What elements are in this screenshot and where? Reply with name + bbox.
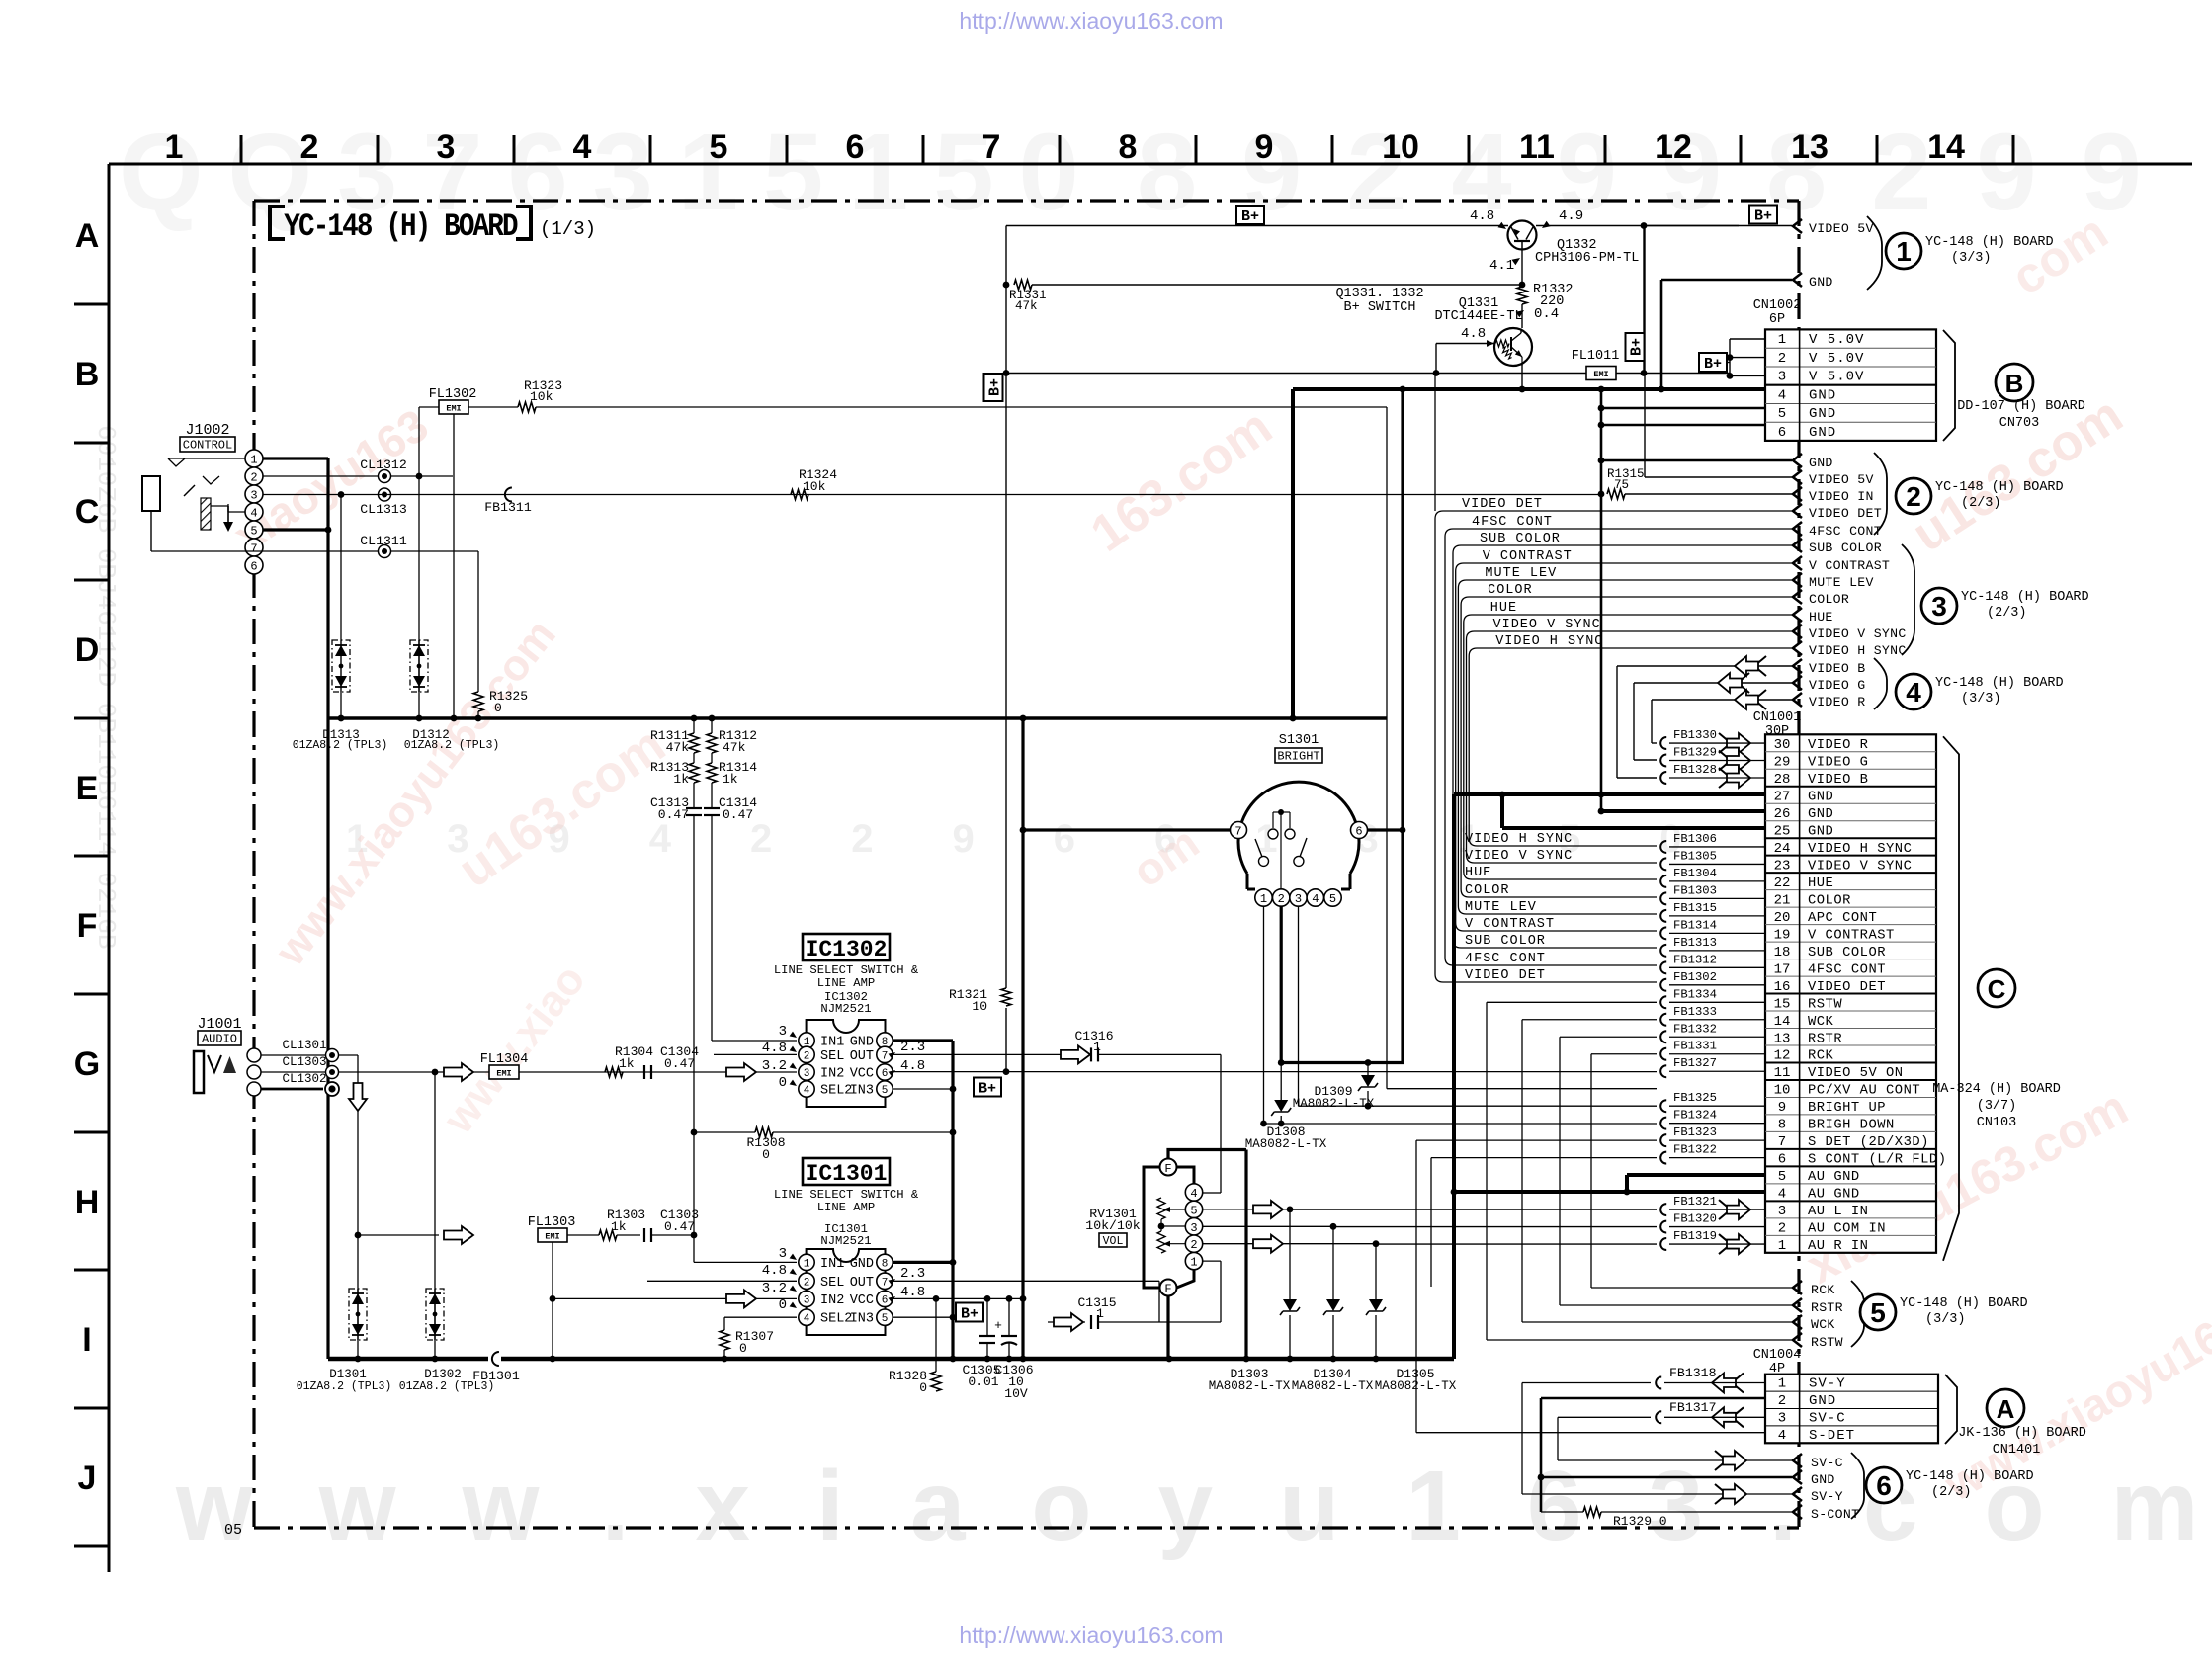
svg-text:FB1303: FB1303 (1673, 883, 1717, 897)
bracket CN1001 (1943, 736, 1959, 1261)
arrow FL1304 (444, 1063, 473, 1081)
svg-text:(2/3): (2/3) (1931, 1485, 1972, 1500)
svg-text:SUB COLOR: SUB COLOR (1808, 946, 1886, 960)
svg-text:MUTE LEV: MUTE LEV (1809, 575, 1874, 590)
svg-text:FB1324: FB1324 (1673, 1109, 1717, 1123)
svg-text:2: 2 (1278, 892, 1285, 906)
ferrite bead FB1330 (1660, 737, 1666, 749)
svg-text:FL1303: FL1303 (528, 1215, 576, 1230)
wires pins 7,6 (1416, 1139, 1657, 1141)
svg-text:www.xiaoyu163.com: www.xiaoyu163.com (175, 1451, 2212, 1561)
svg-text:DTC144EE-TL: DTC144EE-TL (1434, 309, 1522, 324)
ferrite bead FB1320 (1660, 1221, 1666, 1233)
svg-text:J: J (78, 1459, 97, 1497)
RV pin4 wire from C1316 (1203, 1192, 1212, 1194)
svg-text:I: I (82, 1321, 91, 1359)
svg-text:MA8082-L-TX: MA8082-L-TX (1375, 1379, 1457, 1393)
svg-text:DD-107 (H) BOARD: DD-107 (H) BOARD (1957, 399, 2085, 414)
wire MUTE LEV (1458, 580, 1792, 914)
svg-text:1k: 1k (673, 772, 689, 787)
svg-text:CN1004: CN1004 (1753, 1348, 1802, 1363)
resistor R1314 1k (711, 753, 713, 763)
svg-text:YC-148 (H) BOARD: YC-148 (H) BOARD (1900, 1296, 2028, 1311)
svg-text:5: 5 (882, 1085, 889, 1097)
svg-text:AU R IN: AU R IN (1808, 1239, 1868, 1254)
arrow into IN2 (726, 1063, 756, 1081)
svg-text:FL1302: FL1302 (429, 387, 477, 402)
svg-text:4: 4 (1778, 1187, 1786, 1203)
svg-text:VIDEO B: VIDEO B (1809, 661, 1866, 676)
svg-text:FB1321: FB1321 (1673, 1195, 1717, 1209)
svg-text:1k: 1k (619, 1056, 635, 1071)
svg-text:SUB COLOR: SUB COLOR (1809, 541, 1882, 555)
svg-text:GND: GND (850, 1036, 874, 1050)
svg-text:FB1311: FB1311 (484, 500, 532, 515)
wire pin 10 (1387, 1088, 1657, 1090)
board outline dash-dot border YC-148 (254, 199, 1799, 202)
wires AU pins 3,2,1 (1290, 1209, 1657, 1210)
resistor R1304 1k (605, 1067, 623, 1077)
svg-text:4: 4 (804, 1313, 810, 1325)
svg-text:FB1314: FB1314 (1673, 918, 1717, 932)
diode D1312 (410, 640, 428, 692)
outputs group 6 (1793, 1454, 1802, 1467)
svg-text:1: 1 (1778, 1376, 1786, 1392)
svg-text:CN103: CN103 (1977, 1116, 2017, 1130)
wire VIDEO 5V from B+ (1645, 225, 1792, 227)
svg-text:MUTE LEV: MUTE LEV (1485, 566, 1557, 581)
svg-text:VIDEO DET: VIDEO DET (1465, 968, 1546, 983)
svg-text:MA8082-L-TX: MA8082-L-TX (1245, 1137, 1327, 1151)
board ref circled A (1987, 1389, 2024, 1427)
svg-text:10k/10k: 10k/10k (1085, 1218, 1140, 1233)
svg-text:GND: GND (1808, 824, 1833, 839)
svg-text:5: 5 (1870, 1297, 1886, 1328)
svg-text:+: + (994, 1318, 1002, 1333)
svg-text:V 5.0V: V 5.0V (1809, 351, 1864, 367)
svg-text:OUT: OUT (850, 1049, 874, 1064)
GND vertical to chevron (1660, 280, 1663, 389)
svg-text:4.1: 4.1 (1489, 258, 1514, 274)
svg-text:7: 7 (250, 542, 257, 556)
svg-text:VIDEO H SYNC: VIDEO H SYNC (1808, 842, 1912, 857)
svg-text:OUT: OUT (850, 1276, 874, 1291)
svg-text:4.8: 4.8 (900, 1285, 925, 1300)
svg-text:IN1: IN1 (820, 1257, 844, 1272)
svg-text:A: A (1997, 1394, 2015, 1424)
svg-text:01ZA8.2 (TPL3): 01ZA8.2 (TPL3) (293, 739, 388, 752)
svg-text:GND: GND (1809, 1393, 1836, 1409)
svg-text:9: 9 (1255, 128, 1274, 166)
wire pin7 (151, 550, 478, 552)
capacitor C1305 0.01 (986, 1298, 988, 1336)
resistor R1328 0 (935, 1298, 937, 1372)
svg-text:4.8: 4.8 (762, 1041, 787, 1056)
diode D1301 (349, 1289, 367, 1340)
svg-text:7: 7 (882, 1050, 889, 1062)
svg-text:05: 05 (224, 1522, 242, 1539)
IC1301 VCC wire (893, 1297, 1023, 1299)
ferrite bead FB1313 (1660, 945, 1666, 957)
svg-text:2: 2 (300, 128, 319, 166)
board ref circled C (1978, 969, 2015, 1007)
svg-text:4FSC CONT: 4FSC CONT (1808, 962, 1886, 977)
svg-text:GND: GND (1809, 425, 1836, 441)
wires RCK RSTR WCK RSTW crossover (1487, 1001, 1657, 1003)
svg-text:47k: 47k (1015, 299, 1038, 313)
wire S1301 pin6 thick (1368, 828, 1403, 831)
svg-text:MUTE LEV: MUTE LEV (1465, 900, 1537, 915)
svg-text:25: 25 (1774, 823, 1791, 839)
pin 1 J1002 (245, 450, 263, 467)
svg-text:V 5.0V: V 5.0V (1809, 370, 1864, 385)
svg-text:8: 8 (882, 1258, 889, 1270)
svg-text:(3/7): (3/7) (1977, 1099, 2017, 1114)
wire 4FSC CONT (1445, 529, 1792, 965)
pin 5 J1002 (245, 521, 263, 539)
svg-text:GND: GND (1808, 790, 1833, 804)
wire CL1301 to D1301 (357, 1055, 359, 1359)
ferrite bead FB1323 (1660, 1134, 1666, 1146)
svg-text:S1301: S1301 (1279, 733, 1319, 748)
svg-text:SV-Y: SV-Y (1811, 1489, 1843, 1504)
svg-text:VIDEO 5V: VIDEO 5V (1809, 472, 1874, 487)
svg-text:FB1323: FB1323 (1673, 1125, 1717, 1139)
diode D1305 (1375, 1244, 1377, 1299)
svg-text:2: 2 (250, 471, 257, 485)
svg-text:MA8082-L-TX: MA8082-L-TX (1293, 1097, 1375, 1111)
svg-text:FB1315: FB1315 (1673, 901, 1717, 915)
diode D1303 (1289, 1209, 1291, 1299)
svg-text:10k: 10k (530, 389, 553, 404)
wire pin5 thick (263, 528, 328, 531)
svg-text:3: 3 (1778, 1411, 1786, 1427)
capacitor C1313 0.47 (693, 783, 695, 808)
svg-text:SEL: SEL (820, 1276, 844, 1291)
svg-text:0: 0 (494, 701, 502, 715)
ferrite bead FB1322 (1660, 1152, 1666, 1164)
svg-text:3: 3 (779, 1246, 787, 1262)
svg-text:VIDEO DET: VIDEO DET (1462, 497, 1543, 512)
resistor R1313 1k (693, 753, 695, 763)
svg-text:FB1330: FB1330 (1673, 728, 1717, 742)
ferrite bead FB1315 (1660, 910, 1666, 922)
svg-text:16: 16 (1774, 979, 1791, 995)
svg-text:0: 0 (919, 1380, 927, 1395)
RV pin1 wire from C1315 (1203, 1260, 1221, 1262)
svg-text:FB1318: FB1318 (1669, 1366, 1717, 1380)
svg-text:EMI: EMI (446, 404, 461, 414)
IC1302 GND wire thick (893, 1039, 953, 1042)
GND rail top (1293, 387, 1765, 391)
wire VIDEO B (1617, 665, 1792, 667)
IC1301 IN3 wire (893, 1316, 953, 1318)
svg-text:WCK: WCK (1811, 1317, 1835, 1332)
wire HUE (1464, 615, 1792, 879)
svg-text:FB1328: FB1328 (1673, 763, 1717, 777)
pin 2 J1002 (245, 467, 263, 485)
svg-text:LINE SELECT SWITCH &: LINE SELECT SWITCH & (774, 1188, 919, 1202)
svg-text:5: 5 (882, 1313, 889, 1325)
svg-text:IC1301: IC1301 (806, 1161, 888, 1187)
svg-text:A: A (75, 217, 100, 255)
svg-text:2: 2 (804, 1050, 810, 1062)
svg-text:YC-148 (H) BOARD: YC-148 (H) BOARD (1935, 480, 2064, 495)
svg-text:F: F (77, 907, 98, 945)
svg-text:1: 1 (1778, 1238, 1786, 1254)
svg-text:28: 28 (1774, 772, 1791, 788)
svg-text:(2/3): (2/3) (1961, 496, 2001, 511)
wire B+ top rail (1006, 225, 1508, 227)
wire VIDEO G (1634, 682, 1792, 684)
RV pin2 wire AU R (1203, 1243, 1376, 1245)
ferrite bead FB1319 (1660, 1238, 1666, 1250)
svg-text:AUDIO: AUDIO (202, 1033, 237, 1046)
svg-text:VIDEO 5V ON: VIDEO 5V ON (1808, 1066, 1904, 1081)
svg-text:FB1332: FB1332 (1673, 1022, 1717, 1036)
diode D1302 (426, 1289, 444, 1340)
svg-text:4FSC CONT: 4FSC CONT (1472, 515, 1553, 530)
svg-text:(3/3): (3/3) (1961, 692, 2001, 707)
capacitor C1304 0.47 (643, 1065, 645, 1079)
svg-text:VIDEO V SYNC: VIDEO V SYNC (1493, 618, 1601, 632)
svg-text:B: B (75, 356, 100, 393)
svg-text:HUE: HUE (1490, 601, 1517, 616)
ferrite bead FB1329 (1660, 755, 1666, 767)
svg-text:VIDEO V SYNC: VIDEO V SYNC (1465, 849, 1573, 864)
svg-text:4: 4 (804, 1085, 810, 1097)
svg-text:7: 7 (882, 1277, 889, 1289)
svg-text:7: 7 (982, 128, 1001, 166)
ferrite bead FB1302 (1660, 979, 1666, 991)
ferrite bead FB1332 (1660, 1031, 1666, 1042)
wire into IC1301 pin3 (553, 1297, 797, 1299)
svg-text:6: 6 (846, 128, 865, 166)
vertical FL1302 left (418, 407, 420, 718)
ferrite bead FB1314 (1660, 927, 1666, 939)
wire S-DET pin4 (1416, 1432, 1765, 1434)
ferrite bead FB1303 (1660, 892, 1666, 904)
wire SUB COLOR (1453, 545, 1792, 948)
svg-text:7: 7 (1778, 1134, 1786, 1150)
svg-text:http://www.xiaoyu163.com: http://www.xiaoyu163.com (959, 1623, 1223, 1648)
resistor R1308 0 (694, 1131, 755, 1133)
svg-text:8: 8 (1778, 1118, 1786, 1133)
svg-text:VOL: VOL (1103, 1235, 1124, 1248)
board ref circled B (1996, 364, 2033, 401)
svg-text:0.47: 0.47 (664, 1056, 695, 1071)
svg-text:0.4: 0.4 (1534, 306, 1559, 322)
bracket group 3 (1902, 544, 1914, 655)
svg-text:HUE: HUE (1465, 866, 1491, 880)
svg-text:SUB COLOR: SUB COLOR (1465, 934, 1546, 949)
svg-text:YC-148 (H) BOARD: YC-148 (H) BOARD (1906, 1469, 2034, 1484)
S1301 pin1 wire (1263, 906, 1265, 1124)
ferrite bead FB1327 (1660, 1065, 1666, 1077)
svg-text:CONTROL: CONTROL (183, 439, 232, 453)
svg-text:RSTW: RSTW (1811, 1335, 1843, 1350)
svg-text:B+: B+ (987, 378, 1004, 396)
S1301 pin3 wire (1298, 906, 1300, 1106)
S1301 inner contacts (1278, 809, 1284, 815)
svg-text:0.47: 0.47 (658, 807, 689, 822)
svg-text:VIDEO H SYNC: VIDEO H SYNC (1495, 634, 1603, 649)
bracket group 5 (1851, 1281, 1864, 1347)
svg-text:3.2: 3.2 (762, 1058, 787, 1074)
wires AU GND pins 5,4 (1454, 1190, 1765, 1194)
wire pin1 thick (263, 457, 328, 459)
svg-text:11: 11 (1774, 1065, 1791, 1081)
svg-text:4.8: 4.8 (1461, 326, 1486, 342)
svg-text:24: 24 (1774, 841, 1791, 857)
svg-text:VIDEO DET: VIDEO DET (1808, 980, 1886, 995)
IC1302 VCC wire / VIDEO 5V ON (893, 1071, 1657, 1073)
F top elbow thick (1168, 1150, 1246, 1159)
svg-text:4: 4 (1778, 387, 1786, 403)
resistor R1329 0 (1541, 1511, 1583, 1513)
ferrite bead FB1317 (1656, 1411, 1661, 1423)
svg-text:14: 14 (1927, 128, 1965, 166)
svg-text:47k: 47k (723, 740, 746, 755)
svg-text:S-DET: S-DET (1809, 1428, 1855, 1444)
wire pin4 stub (228, 511, 245, 513)
svg-text:20: 20 (1774, 910, 1791, 926)
svg-text:2: 2 (1778, 351, 1786, 367)
IC1302 OUT wire / C1316 (893, 1053, 1061, 1055)
svg-text:YC-148 (H) BOARD: YC-148 (H) BOARD (1961, 590, 2089, 605)
svg-text:HUE: HUE (1808, 876, 1833, 891)
svg-text:1: 1 (165, 128, 184, 166)
svg-text:GND: GND (850, 1257, 874, 1272)
svg-text:2: 2 (1906, 481, 1921, 512)
arrow down audio (349, 1083, 367, 1111)
svg-text:6: 6 (1778, 1152, 1786, 1168)
wire VIDEO H SYNC (1469, 648, 1792, 846)
svg-text:VIDEO B: VIDEO B (1808, 773, 1868, 788)
svg-text:47k: 47k (666, 740, 690, 755)
ferrite FB1311 (505, 488, 512, 502)
wire Q1331 emitter to GND rail (1521, 364, 1523, 389)
IC1301 OUT wire (893, 1280, 1159, 1282)
svg-text:IC1302: IC1302 (806, 937, 888, 962)
svg-text:S-CONT: S-CONT (1811, 1507, 1859, 1522)
svg-text:FB1317: FB1317 (1669, 1400, 1716, 1415)
svg-text:VCC: VCC (850, 1293, 874, 1308)
connector ref circled 1 (1886, 233, 1921, 269)
svg-text:9: 9 (1778, 1100, 1786, 1116)
pin 6 J1002 (245, 556, 263, 574)
svg-text:FB1304: FB1304 (1673, 867, 1717, 880)
svg-text:BRIGHT: BRIGHT (1277, 750, 1319, 764)
bracket group 2 (1874, 453, 1887, 535)
F bottom to bus (1166, 1296, 1169, 1360)
wires GND pins 27,26,25 (1454, 792, 1765, 796)
svg-text:CN1001: CN1001 (1753, 710, 1802, 725)
svg-text:01ZA8.2 (TPL3): 01ZA8.2 (TPL3) (297, 1380, 392, 1393)
wire VIDEO V SYNC (1467, 631, 1793, 863)
svg-text:5: 5 (250, 525, 257, 539)
heavy vertical x1308 to bus (1291, 389, 1295, 718)
svg-text:4FSC CONT: 4FSC CONT (1465, 952, 1546, 966)
svg-text:6: 6 (1778, 425, 1786, 441)
B+ feed vertical x1018 (1005, 226, 1007, 1073)
svg-text:FB1319: FB1319 (1673, 1229, 1717, 1243)
svg-text:10: 10 (1382, 128, 1419, 166)
svg-text:CN1002: CN1002 (1753, 298, 1802, 313)
wire into IC1301 pin4 / R1307 (724, 1316, 797, 1318)
svg-text:1: 1 (250, 454, 257, 467)
vertical R1323 wire to pin10 (1386, 407, 1388, 1089)
pin 4 J1002 (245, 503, 263, 521)
svg-text:V CONTRAST: V CONTRAST (1483, 549, 1573, 564)
thick vertical x964 (951, 1041, 954, 1359)
svg-text:S CONT (L/R FLD): S CONT (L/R FLD) (1808, 1152, 1946, 1168)
svg-text:R1329 0: R1329 0 (1613, 1514, 1667, 1529)
B+ vertical to FL1011 (1643, 226, 1645, 374)
svg-text:B: B (2005, 369, 2024, 398)
ferrite FB1301 on bus (488, 1352, 501, 1366)
svg-text:5: 5 (1778, 406, 1786, 422)
svg-text:FB1331: FB1331 (1673, 1040, 1717, 1053)
svg-text:SV-Y: SV-Y (1809, 1376, 1846, 1392)
pin 7 J1002 (245, 539, 263, 556)
svg-text:EMI: EMI (1593, 370, 1608, 379)
svg-text:FB1320: FB1320 (1673, 1212, 1717, 1226)
svg-text:RCK: RCK (1811, 1283, 1835, 1297)
svg-text:BRIGH DOWN: BRIGH DOWN (1808, 1119, 1895, 1133)
heavy loop pin2/D1309 (1281, 389, 1403, 1063)
transistor Q1332 (1508, 221, 1537, 250)
svg-text:VIDEO DET: VIDEO DET (1809, 506, 1882, 521)
svg-text:http://www.xiaoyu163.com: http://www.xiaoyu163.com (959, 8, 1223, 34)
svg-text:F: F (1164, 1162, 1171, 1176)
vertical to D1302 (434, 1072, 436, 1359)
C1315 (1048, 1321, 1085, 1323)
svg-text:V 5.0V: V 5.0V (1809, 332, 1864, 348)
svg-text:V CONTRAST: V CONTRAST (1465, 917, 1555, 932)
svg-text:FB1327: FB1327 (1673, 1056, 1717, 1070)
svg-text:FB1306: FB1306 (1673, 832, 1717, 846)
svg-text:MA8082-L-TX: MA8082-L-TX (1292, 1379, 1374, 1393)
svg-text:VIDEO H SYNC: VIDEO H SYNC (1465, 832, 1573, 847)
wire GND CN1004 pin2 (1541, 1397, 1765, 1400)
svg-text:F: F (1164, 1283, 1171, 1296)
svg-text:3: 3 (1295, 892, 1302, 906)
wire VIDEO IN long (341, 494, 1601, 496)
svg-text:H: H (75, 1184, 100, 1221)
svg-text:CPH3106-PM-TL: CPH3106-PM-TL (1535, 251, 1639, 266)
svg-text:12: 12 (1774, 1048, 1791, 1064)
svg-text:SV-C: SV-C (1811, 1456, 1843, 1470)
svg-text:3: 3 (804, 1294, 810, 1306)
svg-text:YC-148 (H) BOARD: YC-148 (H) BOARD (284, 209, 517, 246)
svg-text:5: 5 (1329, 892, 1336, 906)
svg-text:5: 5 (1190, 1204, 1197, 1217)
ferrite filter FL1011 EMI (1006, 373, 1586, 375)
svg-text:YC-148 (H) BOARD: YC-148 (H) BOARD (1925, 235, 2054, 250)
svg-text:FB1322: FB1322 (1673, 1143, 1717, 1157)
svg-text:PC/XV AU CONT: PC/XV AU CONT (1808, 1083, 1920, 1099)
svg-text:1: 1 (1260, 892, 1267, 906)
svg-text:JK-136 (H) BOARD: JK-136 (H) BOARD (1958, 1426, 2086, 1441)
svg-text:8: 8 (1119, 128, 1138, 166)
resistor R1311 47k (693, 718, 695, 733)
svg-text:26: 26 (1774, 806, 1791, 822)
svg-text:4.8: 4.8 (762, 1263, 787, 1279)
svg-text:15: 15 (1774, 996, 1791, 1012)
vertical video det long (1434, 374, 1436, 512)
grid frame ruler (109, 163, 2192, 166)
